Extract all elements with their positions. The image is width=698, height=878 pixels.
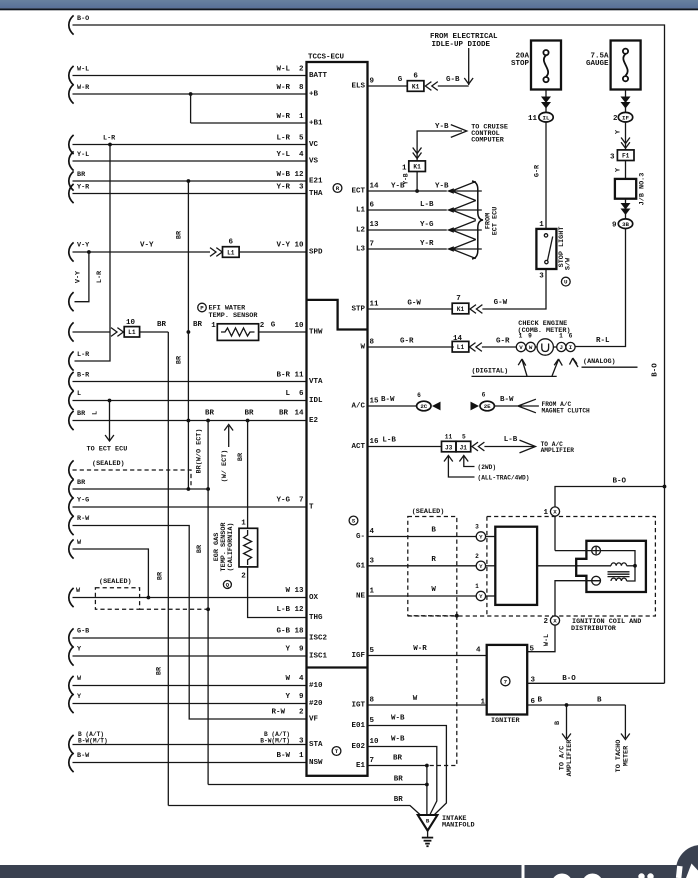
- sensor EGR gas temp R2: [239, 528, 258, 567]
- wire SPD to ECU: [239, 251, 306, 253]
- svg-text:14: 14: [453, 335, 463, 343]
- svg-text:BR: BR: [237, 452, 245, 461]
- wire OX row W sealed: [69, 588, 74, 607]
- label EFI water temp sensor: [198, 303, 207, 312]
- svg-text:14: 14: [294, 410, 304, 418]
- svg-text:3: 3: [299, 737, 304, 745]
- svg-text:(SEALED): (SEALED): [92, 460, 125, 468]
- svg-text:IDL: IDL: [309, 397, 323, 405]
- svg-text:Y: Y: [479, 593, 483, 600]
- svg-text:A/C: A/C: [351, 403, 365, 411]
- svg-text:1: 1: [299, 113, 304, 121]
- footer logo marks: [552, 874, 573, 878]
- wire IDL row L: [69, 391, 74, 410]
- svg-text:L: L: [77, 390, 81, 398]
- svg-text:11: 11: [370, 301, 380, 309]
- svg-text:IGNITER: IGNITER: [491, 717, 520, 725]
- svg-text:W: W: [529, 344, 533, 351]
- svg-text:B: B: [431, 527, 436, 535]
- svg-text:W: W: [413, 695, 418, 703]
- svg-text:W: W: [77, 675, 82, 683]
- svg-text:K1: K1: [413, 164, 421, 171]
- svg-text:W-B: W-B: [391, 736, 405, 744]
- connector J3: [442, 441, 457, 452]
- svg-text:B-R: B-R: [276, 372, 290, 380]
- svg-text:E21: E21: [309, 178, 323, 186]
- svg-text:BR: BR: [77, 171, 86, 179]
- svg-text:T: T: [309, 504, 314, 512]
- svg-text:Y: Y: [614, 167, 622, 172]
- wire L2 row Y-G: [368, 229, 447, 231]
- svg-text:18: 18: [294, 628, 304, 636]
- svg-text:NSW: NSW: [309, 759, 323, 767]
- svg-text:6: 6: [531, 698, 536, 706]
- svg-text:(CALIFORNIA): (CALIFORNIA): [227, 523, 235, 572]
- wire E21 row BR/W-B: [69, 171, 74, 190]
- svg-text:11: 11: [445, 434, 453, 441]
- coil core: [608, 571, 630, 573]
- svg-text:R-L: R-L: [596, 337, 610, 345]
- svg-text:J3: J3: [445, 444, 453, 451]
- svg-text:BR: BR: [157, 571, 165, 580]
- svg-text:2: 2: [299, 709, 304, 717]
- svg-text:FROM ELECTRICAL: FROM ELECTRICAL: [430, 33, 498, 41]
- node BR branch E21: [187, 179, 191, 183]
- wire L3 row Y-R: [368, 248, 447, 250]
- svg-text:L-B: L-B: [382, 437, 396, 445]
- svg-text:L-B: L-B: [504, 436, 518, 444]
- svg-text:G: G: [398, 76, 403, 84]
- svg-text:3B: 3B: [622, 221, 629, 228]
- node L-R branch: [108, 143, 112, 147]
- wire NSW row B-W: [69, 753, 74, 772]
- svg-text:1: 1: [539, 221, 544, 229]
- svg-text:13: 13: [370, 221, 380, 229]
- wire IGT row W: [368, 704, 487, 706]
- svg-text:L2: L2: [356, 227, 366, 235]
- svg-text:THW: THW: [309, 329, 323, 337]
- svg-text:1: 1: [241, 520, 246, 528]
- label BR W/O ECT vertical: [207, 421, 209, 785]
- wire NE row W: [368, 595, 477, 597]
- svg-text:BR: BR: [196, 544, 204, 553]
- svg-text:7: 7: [299, 497, 304, 505]
- svg-text:8: 8: [299, 84, 304, 92]
- wire B-O to distributor: [555, 487, 665, 508]
- svg-text:B-W: B-W: [381, 396, 395, 404]
- ignition coil T1: [576, 541, 646, 592]
- svg-text:1: 1: [211, 322, 216, 330]
- svg-text:U: U: [564, 279, 568, 286]
- ECU internal partition lower: [307, 666, 368, 668]
- wire G1 row R: [368, 565, 477, 567]
- wire BR row to ground B: [168, 806, 421, 816]
- junction block J/B NO.3: [615, 179, 636, 199]
- ECU connector marker T: [332, 747, 341, 756]
- svg-text:2: 2: [299, 66, 304, 74]
- fuse 20A STOP F1: [531, 41, 561, 90]
- svg-text:W-R: W-R: [413, 645, 427, 653]
- svg-text:(SEALED): (SEALED): [99, 578, 132, 586]
- svg-text:12: 12: [294, 606, 304, 614]
- svg-text:16: 16: [370, 438, 380, 446]
- svg-text:B-W: B-W: [500, 396, 514, 404]
- svg-text:GAUGE: GAUGE: [586, 60, 609, 68]
- svg-text:B-O: B-O: [613, 478, 627, 486]
- ECU connector marker R: [333, 184, 342, 193]
- svg-text:G-R: G-R: [534, 164, 542, 177]
- svg-text:#10: #10: [309, 682, 323, 690]
- coil secondary winding: [611, 578, 627, 581]
- svg-text:W: W: [285, 587, 290, 595]
- svg-text:BR: BR: [394, 796, 404, 804]
- svg-text:9: 9: [299, 646, 304, 654]
- svg-text:X: X: [553, 509, 557, 516]
- svg-text:7: 7: [370, 241, 375, 249]
- svg-text:3: 3: [610, 154, 615, 162]
- svg-text:G1: G1: [356, 562, 366, 570]
- wire W-L to igniter: [527, 625, 555, 652]
- svg-text:4: 4: [370, 528, 375, 536]
- svg-text:W-B: W-B: [276, 171, 290, 179]
- svg-text:5: 5: [462, 434, 466, 441]
- wire coil minus to X2: [555, 581, 592, 616]
- svg-text:Y-G: Y-G: [420, 221, 434, 229]
- svg-text:S: S: [352, 518, 356, 525]
- svg-text:11: 11: [294, 372, 304, 380]
- connector 2C: [417, 401, 431, 411]
- svg-text:MANIFOLD: MANIFOLD: [442, 822, 475, 830]
- svg-text:Y-B: Y-B: [435, 183, 449, 191]
- svg-text:2: 2: [475, 553, 479, 560]
- svg-text:3: 3: [531, 677, 536, 685]
- svg-text:BR: BR: [77, 410, 86, 418]
- svg-text:ACT: ACT: [351, 443, 365, 451]
- igniter box U2: [487, 645, 528, 715]
- svg-text:STP: STP: [351, 306, 365, 314]
- wire W row G-R check engine: [368, 346, 454, 348]
- svg-text:G-R: G-R: [496, 338, 510, 346]
- node IDL branch to ECT ECU: [108, 399, 112, 403]
- ground intake manifold: [418, 815, 438, 831]
- wire +B1 row W-R: [191, 122, 307, 124]
- svg-text:(DIGITAL): (DIGITAL): [472, 368, 509, 376]
- wire L-R vertical: [75, 145, 111, 362]
- svg-text:TO ECT ECU: TO ECT ECU: [87, 446, 128, 454]
- svg-text:IGT: IGT: [351, 702, 365, 710]
- svg-text:L-B: L-B: [420, 201, 434, 209]
- svg-text:NE: NE: [356, 593, 366, 601]
- wire igniter B out: [527, 704, 625, 706]
- svg-text:(2WD): (2WD): [478, 464, 497, 471]
- svg-text:1: 1: [299, 752, 304, 760]
- svg-text:IDLE-UP DIODE: IDLE-UP DIODE: [432, 41, 491, 49]
- svg-text:(SEALED): (SEALED): [412, 508, 445, 516]
- wire STA row B: [69, 735, 74, 754]
- connector 2E: [471, 402, 480, 411]
- annotation arrow W/ECT: [228, 426, 230, 447]
- wire THA row Y-R: [69, 184, 74, 203]
- wire E2 row BR: [69, 411, 74, 430]
- wire E02 row W-B: [368, 747, 437, 816]
- svg-text:BR: BR: [245, 410, 255, 418]
- svg-text:ECT ECU: ECT ECU: [492, 207, 500, 236]
- svg-text:1: 1: [559, 333, 563, 340]
- svg-text:Y-R: Y-R: [276, 184, 290, 192]
- node +B branch: [189, 92, 193, 96]
- svg-text:Y: Y: [77, 693, 82, 701]
- svg-text:7: 7: [504, 678, 508, 685]
- svg-text:(W/ ECT): (W/ ECT): [221, 450, 229, 483]
- svg-text:COMPUTER: COMPUTER: [471, 137, 505, 145]
- svg-text:R-W: R-W: [77, 515, 90, 523]
- wire L1 row L-B: [368, 209, 447, 211]
- wire Y-B to cruise control: [416, 172, 418, 191]
- svg-text:1: 1: [370, 588, 375, 596]
- svg-text:R-W: R-W: [271, 709, 285, 717]
- svg-text:Y: Y: [614, 129, 622, 134]
- wire to A/C amplifier arrow: [566, 705, 568, 738]
- wire ISC2 row G-B: [69, 628, 74, 647]
- svg-text:5: 5: [299, 135, 304, 143]
- svg-text:W-L: W-L: [276, 66, 290, 74]
- svg-text:X: X: [553, 618, 557, 625]
- connector F1: [617, 150, 634, 161]
- svg-text:BR: BR: [176, 355, 184, 364]
- svg-text:9: 9: [299, 693, 304, 701]
- svg-text:2: 2: [613, 115, 618, 123]
- svg-text:Y-R: Y-R: [420, 240, 434, 248]
- svg-text:OX: OX: [309, 594, 319, 602]
- svg-text:G-W: G-W: [494, 299, 508, 307]
- wire BR from L1 down: [140, 331, 169, 333]
- svg-text:Q: Q: [226, 582, 230, 589]
- svg-text:3: 3: [370, 557, 375, 565]
- svg-text:10: 10: [294, 242, 304, 250]
- wire IF to F1 Y: [625, 122, 627, 151]
- svg-text:S/W: S/W: [565, 257, 573, 270]
- svg-text:B-W: B-W: [276, 752, 290, 760]
- svg-text:L1: L1: [457, 344, 465, 351]
- svg-text:G-R: G-R: [400, 338, 414, 346]
- svg-text:4: 4: [476, 647, 481, 655]
- svg-text:Y-L: Y-L: [276, 151, 290, 159]
- annotation 2WD: [459, 456, 468, 462]
- wire ECT row Y-B: [368, 190, 447, 192]
- connector 3B: [618, 219, 632, 229]
- wire #10 row W: [69, 676, 74, 695]
- wire BR row to ground A: [208, 784, 427, 786]
- svg-text:L-R: L-R: [103, 135, 116, 143]
- svg-text:ISC1: ISC1: [309, 653, 328, 661]
- connector IF: [618, 112, 632, 122]
- svg-text:1: 1: [475, 583, 479, 590]
- svg-text:5: 5: [530, 646, 535, 654]
- svg-text:P: P: [200, 305, 204, 312]
- wire T row Y-G: [69, 497, 74, 516]
- svg-text:BR(W/O ECT): BR(W/O ECT): [196, 429, 204, 474]
- svg-text:1: 1: [519, 333, 523, 340]
- svg-text:W: W: [77, 539, 82, 547]
- wire STP row G-W: [368, 308, 453, 310]
- svg-text:2: 2: [543, 618, 548, 626]
- svg-text:4: 4: [299, 675, 304, 683]
- wire A/C row B-W: [368, 405, 417, 407]
- svg-text:Y: Y: [285, 693, 290, 701]
- svg-text:Y-G: Y-G: [276, 497, 290, 505]
- svg-text:8: 8: [370, 697, 375, 705]
- wire +B row W-R: [69, 84, 74, 103]
- svg-text:V: V: [519, 344, 523, 351]
- svg-text:B: B: [554, 721, 562, 725]
- svg-text:W: W: [285, 675, 290, 683]
- annotation ALL-TRAC/4WD: [444, 456, 453, 462]
- svg-text:J: J: [560, 344, 563, 351]
- svg-text:Y: Y: [479, 563, 483, 570]
- svg-text:Y-B: Y-B: [391, 183, 405, 191]
- wire BATT row W-L: [69, 66, 74, 85]
- svg-text:B-O: B-O: [652, 363, 660, 377]
- svg-text:BR: BR: [205, 410, 215, 418]
- svg-text:BR: BR: [394, 776, 404, 784]
- svg-text:W: W: [431, 586, 436, 594]
- svg-text:BATT: BATT: [309, 72, 328, 80]
- svg-text:+B1: +B1: [309, 120, 323, 128]
- svg-text:4: 4: [299, 151, 304, 159]
- svg-text:2: 2: [241, 573, 246, 581]
- svg-text:5: 5: [370, 717, 375, 725]
- ECU internal partition upper: [307, 300, 368, 330]
- svg-text:AMPLIFIER: AMPLIFIER: [541, 447, 575, 454]
- wire from idle-up diode: [468, 48, 470, 85]
- svg-text:1: 1: [543, 509, 548, 517]
- svg-text:6: 6: [482, 392, 486, 399]
- wire W row 1: [69, 539, 74, 558]
- svg-text:#20: #20: [309, 700, 323, 708]
- svg-text:11: 11: [528, 115, 538, 123]
- svg-text:Y-G: Y-G: [77, 497, 89, 505]
- svg-text:F1: F1: [622, 153, 630, 160]
- svg-text:IGF: IGF: [351, 652, 365, 660]
- box ignition coil distributor dashed: [408, 517, 656, 617]
- svg-text:G-W: G-W: [407, 300, 421, 308]
- svg-text:K1: K1: [457, 306, 465, 313]
- svg-text:BR: BR: [279, 410, 289, 418]
- svg-text:L: L: [92, 411, 100, 415]
- svg-text:+B: +B: [309, 91, 319, 99]
- svg-text:7: 7: [370, 757, 375, 765]
- svg-text:6: 6: [413, 73, 418, 81]
- svg-text:BR: BR: [176, 230, 184, 239]
- svg-text:V-Y: V-Y: [140, 242, 154, 250]
- svg-text:E2: E2: [309, 417, 319, 425]
- wire THW row connector: [69, 322, 74, 341]
- svg-text:IF: IF: [622, 114, 629, 121]
- svg-text:L1: L1: [356, 207, 366, 215]
- svg-text:L1: L1: [128, 329, 136, 336]
- coil internal wires: [601, 551, 636, 581]
- svg-text:BR: BR: [193, 321, 203, 329]
- svg-text:BR: BR: [77, 479, 86, 487]
- svg-text:ISC2: ISC2: [309, 635, 328, 643]
- svg-text:STA: STA: [309, 741, 323, 749]
- wire VS row Y-L: [69, 151, 74, 170]
- svg-text:R: R: [431, 556, 436, 564]
- svg-text:IL: IL: [543, 114, 550, 121]
- svg-text:ECT: ECT: [351, 188, 365, 196]
- svg-text:7: 7: [456, 295, 461, 303]
- wire EGR to THG: [248, 567, 307, 618]
- svg-text:THA: THA: [309, 190, 323, 198]
- svg-text:W-L: W-L: [543, 634, 551, 646]
- distributor pickup box: [495, 527, 537, 605]
- svg-text:B-R: B-R: [77, 372, 90, 380]
- svg-text:VTA: VTA: [309, 378, 323, 386]
- svg-text:W-B: W-B: [391, 715, 405, 723]
- svg-text:G-B: G-B: [446, 76, 460, 84]
- svg-text:G-B: G-B: [276, 628, 290, 636]
- svg-text:E02: E02: [351, 743, 365, 751]
- connector L1 THW: [124, 327, 139, 337]
- wire fuse to IF: [625, 90, 627, 113]
- wire fuse to IL: [545, 90, 547, 113]
- svg-text:TEMP. SENSOR: TEMP. SENSOR: [209, 312, 259, 320]
- wire IGF row W-R: [368, 655, 487, 657]
- svg-text:V-Y: V-Y: [77, 242, 90, 250]
- node X1: [550, 507, 559, 516]
- wire ACT row L-B: [368, 446, 442, 448]
- svg-text:9: 9: [612, 222, 617, 230]
- wire ELS row G: [368, 85, 408, 87]
- svg-text:W-L: W-L: [77, 66, 89, 74]
- svg-text:VC: VC: [309, 141, 319, 149]
- wire sealed row 1 dashed: [69, 460, 74, 479]
- wire VC row L-R: [69, 135, 74, 154]
- svg-text:AMPLIFIER: AMPLIFIER: [566, 739, 574, 777]
- svg-text:L1: L1: [227, 249, 235, 256]
- wire E01 row W-B: [368, 726, 447, 816]
- svg-text:3: 3: [475, 524, 479, 531]
- wire distributor to coil: [537, 565, 611, 567]
- svg-text:V-Y: V-Y: [276, 242, 290, 250]
- svg-text:B-W: B-W: [77, 752, 90, 760]
- connector K1 ELS: [407, 81, 424, 92]
- svg-text:BR: BR: [156, 666, 164, 675]
- svg-text:(ANALOG): (ANALOG): [583, 358, 616, 366]
- svg-text:I: I: [569, 344, 573, 351]
- svg-text:W: W: [76, 587, 81, 595]
- wire to tacho meter arrow: [624, 705, 626, 738]
- wire V-Y stub to brace: [75, 252, 89, 302]
- svg-text:12: 12: [294, 171, 304, 179]
- wire sealed dashed to E1: [429, 616, 457, 766]
- svg-text:B: B: [597, 697, 602, 705]
- svg-text:W: W: [360, 344, 365, 352]
- svg-text:W-R: W-R: [276, 113, 290, 121]
- svg-text:E1: E1: [356, 762, 366, 770]
- svg-text:B-W(M/T): B-W(M/T): [78, 737, 108, 744]
- wire X1 to coil plus: [555, 550, 592, 552]
- svg-text:Y: Y: [77, 646, 82, 654]
- svg-text:STOP: STOP: [511, 60, 530, 68]
- svg-text:V-Y: V-Y: [75, 270, 83, 283]
- svg-text:G: G: [271, 322, 276, 330]
- svg-text:6: 6: [370, 202, 375, 210]
- wire 3B to check engine R-L: [575, 229, 625, 347]
- svg-text:6: 6: [299, 390, 304, 398]
- connector K1 cruise: [413, 148, 422, 154]
- svg-text:B: B: [538, 697, 543, 705]
